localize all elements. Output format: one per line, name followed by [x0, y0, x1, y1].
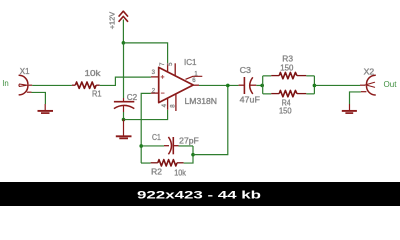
svg-text:R1: R1	[92, 90, 102, 99]
wire X1 sleeve to ground	[27, 91, 32, 93]
connector X1	[19, 75, 28, 95]
wire X2 sleeve to ground	[361, 91, 367, 93]
resistor R2	[151, 160, 184, 166]
wire +12V down to junction	[122, 20, 124, 43]
wire C1 row right	[179, 145, 194, 147]
wire R2 row left	[141, 162, 151, 164]
svg-text:C3: C3	[240, 66, 252, 75]
wire pin2 to feedback	[141, 93, 151, 163]
wire junction down to C2	[123, 43, 125, 98]
svg-text:10k: 10k	[174, 168, 186, 177]
wire R3 row left	[263, 75, 271, 77]
svg-text:LM318N: LM318N	[185, 96, 218, 106]
ground below junction B	[116, 119, 132, 138]
svg-text:X1: X1	[20, 66, 30, 76]
svg-text:150: 150	[279, 106, 292, 115]
footer bar	[0, 182, 400, 206]
svg-text:R3: R3	[282, 55, 293, 64]
wire op-amp output	[199, 84, 239, 86]
wire C3 to R3R4	[256, 84, 263, 86]
connector X2	[366, 75, 376, 95]
svg-text:In: In	[2, 79, 9, 88]
wire X1 tip to R1	[27, 84, 32, 86]
svg-text:Out: Out	[384, 80, 398, 89]
wire feedback to output	[193, 85, 228, 154]
wire R3R4 right vertical	[313, 76, 315, 94]
wire R4 row right	[306, 93, 314, 95]
node feedback right junction	[191, 153, 195, 157]
node R3R4 left junction	[260, 84, 264, 88]
wire junction to pin7	[123, 43, 167, 63]
ground below X2	[342, 104, 357, 113]
capacitor C1	[164, 137, 179, 154]
wire R2 row right and feedback right vertical	[184, 146, 193, 163]
svg-text:10k: 10k	[85, 69, 102, 78]
svg-text:922x423 - 44 kb: 922x423 - 44 kb	[137, 189, 261, 201]
node R3R4 right junction	[313, 84, 317, 88]
svg-text:C1: C1	[152, 133, 161, 142]
capacitor C3	[239, 77, 257, 94]
svg-text:47uF: 47uF	[240, 96, 260, 105]
svg-text:C2: C2	[127, 93, 138, 102]
wire R3 row right	[306, 75, 314, 77]
ground below X1	[38, 104, 54, 113]
svg-text:+12V: +12V	[110, 11, 117, 29]
node output junction	[226, 84, 230, 88]
svg-text:IC1: IC1	[184, 58, 197, 67]
svg-text:27pF: 27pF	[179, 136, 199, 145]
resistor R1	[72, 82, 100, 88]
capacitor C2	[114, 98, 134, 112]
svg-text:R2: R2	[151, 167, 162, 176]
op-amp IC1	[151, 63, 202, 111]
svg-text:X2: X2	[364, 66, 375, 76]
wire R1 to pin3	[100, 77, 151, 85]
wire junction B to pin4	[124, 110, 168, 120]
resistor R3	[271, 72, 306, 78]
wire R4 row left	[263, 93, 271, 95]
svg-text:150: 150	[280, 63, 294, 72]
wire C2 to junction B	[123, 112, 125, 120]
node junction B	[122, 118, 126, 122]
wire to X2	[314, 84, 360, 86]
supply +12V symbol	[119, 11, 128, 22]
node feedback left junction	[139, 144, 143, 148]
wire R3R4 left vertical	[262, 76, 264, 94]
wire C1 row left	[141, 145, 164, 147]
resistor R4	[271, 90, 306, 96]
node junction at +12V rail	[122, 41, 126, 45]
